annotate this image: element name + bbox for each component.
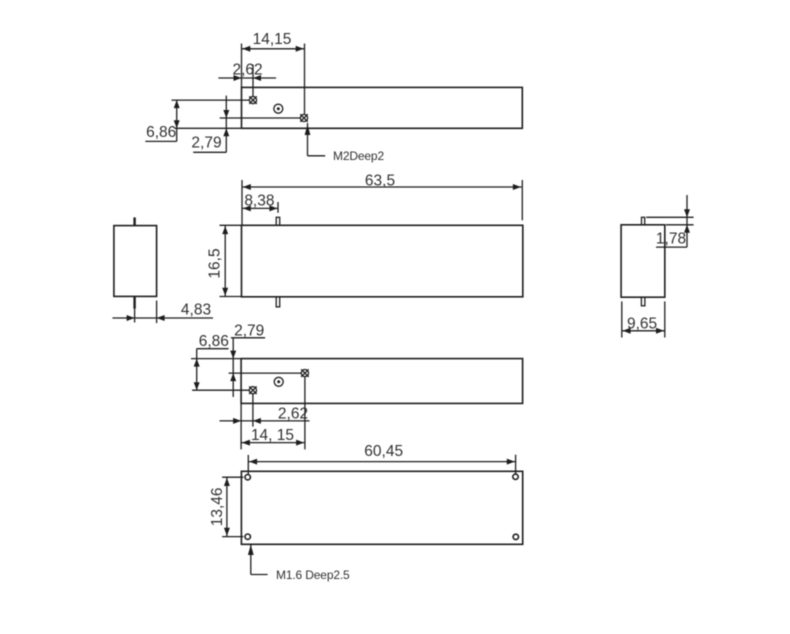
plate hole top-right — [513, 474, 518, 479]
right side view top pin — [642, 217, 645, 225]
svg-text:4,83: 4,83 — [181, 302, 211, 319]
left side view bottom pin — [133, 296, 135, 322]
dimension 9,65 (right side view) — [622, 301, 665, 337]
dimension 4,83 (left side view) — [112, 301, 213, 324]
svg-text:14, 15: 14, 15 — [251, 427, 294, 444]
dimension 2,79 (top view, vertical) — [191, 96, 229, 153]
leader M1.6 Deep2.5 (base plate) — [248, 544, 350, 582]
dimension 6,86 (top view, vertical) — [145, 100, 179, 141]
extension line hole H1 level — [172, 99, 250, 101]
left side view body — [114, 226, 157, 297]
front view body — [242, 225, 523, 296]
svg-text:60,45: 60,45 — [364, 443, 403, 460]
extension line hole H2 level — [220, 117, 301, 119]
plate hole top-left — [245, 475, 250, 480]
dimension 60,45 (base plate) — [248, 443, 515, 475]
dimension 2,62 (top view) — [218, 61, 276, 96]
dimension 2,79 (bottom view, vertical) — [230, 322, 265, 397]
svg-text:2,62: 2,62 — [233, 61, 263, 78]
bottom view body — [241, 359, 522, 404]
svg-text:1,78: 1,78 — [656, 231, 686, 248]
svg-text:6,86: 6,86 — [199, 333, 229, 350]
extension line hole H3 level — [192, 389, 249, 391]
dimension 13,46 (base plate, vertical) — [209, 477, 243, 536]
center mark (bottom view) — [274, 377, 283, 386]
extension of body top edge to the left (bottom view) — [191, 358, 241, 360]
dimension 1,78 (right side view) — [646, 195, 693, 248]
svg-text:9,65: 9,65 — [627, 316, 657, 333]
dimension 8,38 (front view) — [242, 193, 278, 213]
extension line hole H4 level — [229, 372, 302, 374]
svg-text:63,5: 63,5 — [365, 172, 395, 189]
svg-text:16,5: 16,5 — [207, 248, 224, 278]
extension of body bottom edge to the left — [175, 127, 242, 129]
front view bottom pin — [276, 297, 280, 307]
center mark (top view) — [274, 104, 283, 113]
plate hole bottom-left — [245, 534, 250, 539]
hole H2 (top view, M2 tapped hole) — [300, 114, 308, 122]
hole H1 (top view, M2 tapped hole) — [249, 96, 257, 104]
front view top pin — [276, 217, 280, 225]
hole H3 (bottom view) — [249, 386, 257, 394]
hole H4 (bottom view) — [301, 369, 309, 377]
svg-text:M2Deep2: M2Deep2 — [333, 149, 384, 163]
dimension 2,62 (bottom view) — [220, 394, 310, 427]
left side view top pin — [133, 217, 135, 225]
base plate view body — [241, 471, 522, 544]
svg-text:M1.6 Deep2.5: M1.6 Deep2.5 — [276, 568, 350, 582]
right side view bottom pin — [641, 297, 645, 306]
leader M2Deep2 (top view) — [305, 123, 385, 163]
svg-text:2,79: 2,79 — [191, 134, 221, 151]
svg-text:2,62: 2,62 — [278, 405, 308, 422]
top view body — [242, 87, 523, 128]
svg-text:2,79: 2,79 — [234, 322, 264, 339]
plate hole bottom-right — [513, 534, 518, 539]
dimension 6,86 (bottom view, vertical) — [194, 333, 229, 390]
svg-text:13,46: 13,46 — [209, 488, 226, 527]
dimension 63,5 (front view) — [242, 172, 522, 225]
dimension 16,5 (front view, vertical) — [207, 225, 242, 296]
dimension 14,15 (top view) — [242, 31, 305, 114]
dimension 14,15 (bottom view) — [241, 377, 305, 449]
svg-text:6,86: 6,86 — [146, 124, 176, 141]
right side view body — [621, 225, 665, 297]
svg-text:8,38: 8,38 — [244, 193, 274, 210]
svg-text:14,15: 14,15 — [253, 31, 292, 48]
